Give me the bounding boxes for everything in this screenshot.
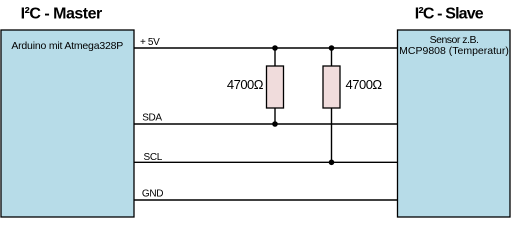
wire GND net (134, 199, 398, 201)
wire R1 vertical (+5V to SDA) (274, 48, 276, 124)
junction dot SDA/R1 (272, 121, 278, 127)
svg-text:4700Ω: 4700Ω (227, 77, 264, 92)
svg-text:4700Ω: 4700Ω (346, 77, 383, 92)
block U1 Arduino (I2C master) (1, 30, 134, 217)
wire R2 vertical (+5V to SCL, crossing SDA) (331, 48, 333, 162)
svg-text:SCL: SCL (144, 152, 163, 163)
wire SCL net (134, 161, 398, 163)
svg-text:+ 5V: + 5V (140, 37, 160, 48)
block U2 Sensor MCP9808 (I2C slave) (398, 30, 511, 217)
svg-text:I²C - Master: I²C - Master (21, 6, 102, 23)
svg-text:MCP9808 (Temperatur): MCP9808 (Temperatur) (399, 45, 509, 57)
svg-text:Arduino mit Atmega328P: Arduino mit Atmega328P (11, 40, 123, 52)
svg-text:GND: GND (142, 189, 163, 200)
wire +5V net (134, 47, 398, 49)
svg-text:I²C - Slave: I²C - Slave (415, 6, 484, 23)
resistor R1 (267, 66, 284, 108)
junction dot SCL/R2 (329, 160, 335, 166)
svg-text:SDA: SDA (142, 112, 162, 123)
junction dot +5V/R2 (329, 45, 335, 51)
wire SDA net (134, 123, 398, 125)
resistor R2 (323, 66, 340, 108)
junction dot +5V/R1 (272, 45, 278, 51)
